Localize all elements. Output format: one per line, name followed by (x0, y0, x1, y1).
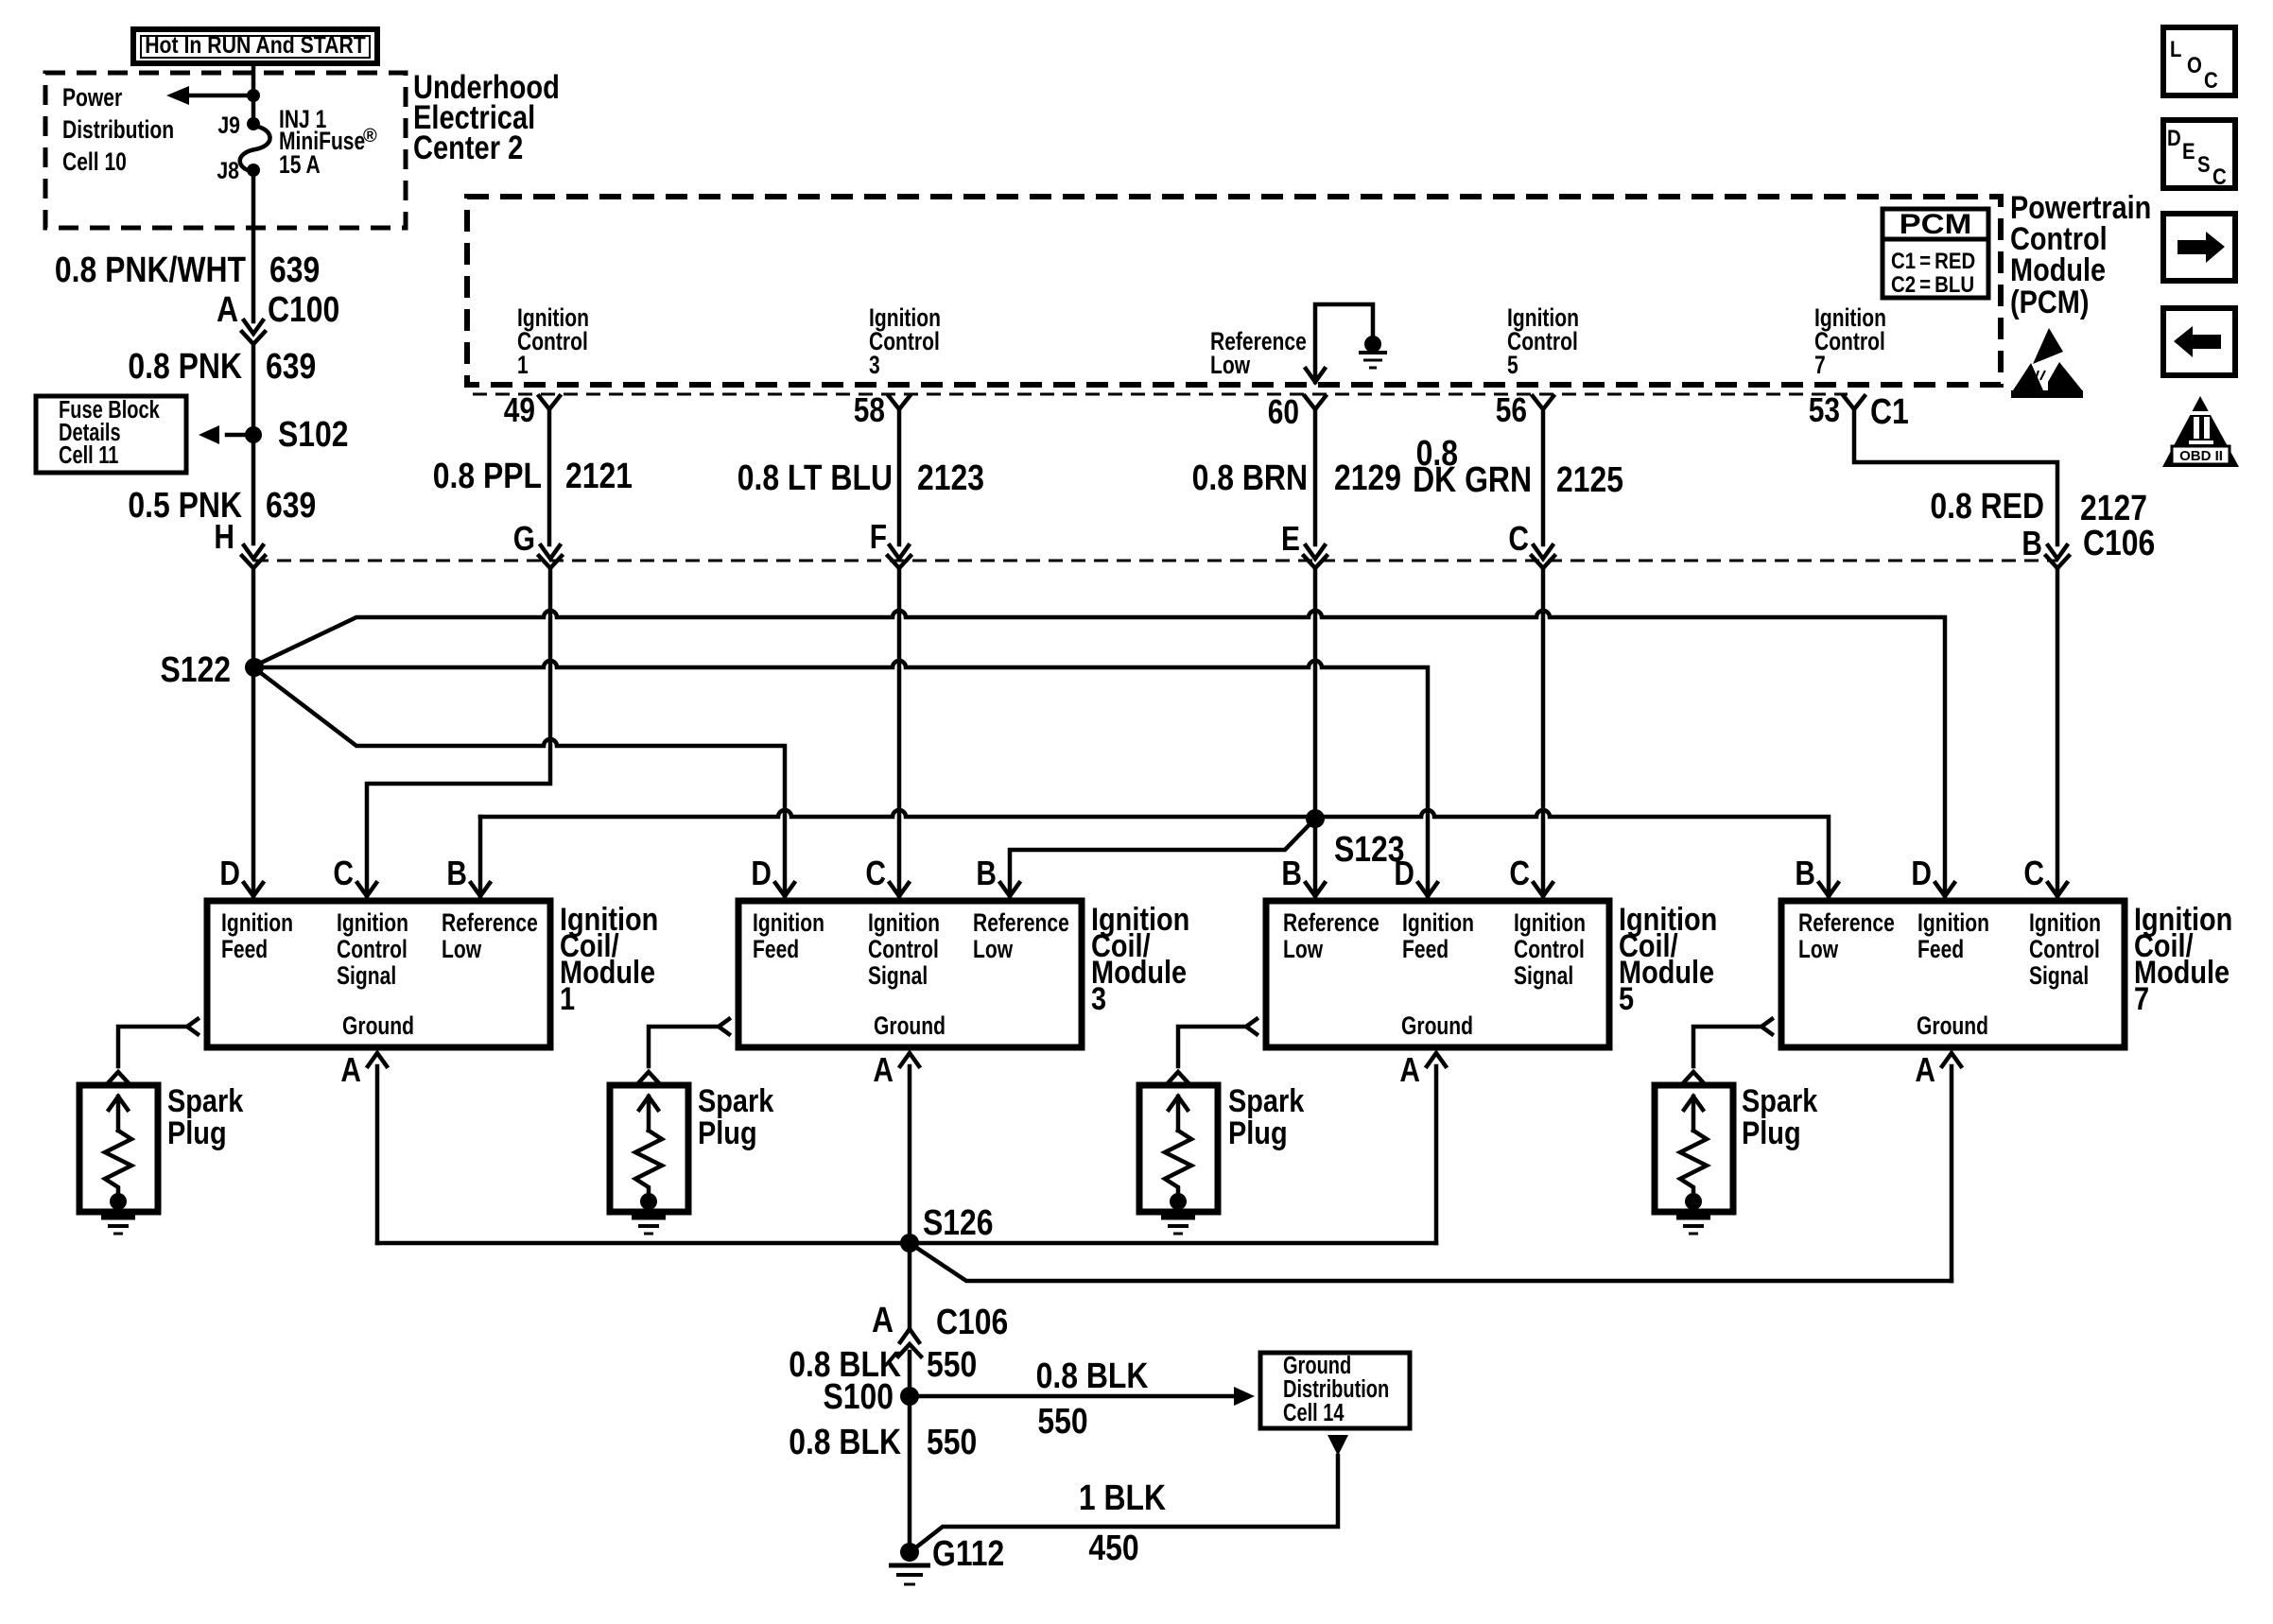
svg-text:E: E (1281, 520, 1300, 558)
spark plug 4 (1655, 1085, 1733, 1212)
PCM pin 58 connector fork (889, 396, 910, 409)
svg-text:Center 2: Center 2 (413, 129, 523, 165)
connector C106 pin G (539, 545, 562, 568)
svg-text:Control: Control (1514, 936, 1585, 964)
svg-text:OBD II: OBD II (2179, 448, 2223, 464)
label Underhood Electrical Center 2 (413, 68, 560, 165)
svg-text:(PCM): (PCM) (2010, 284, 2089, 320)
wire ignition control G to coil 1 pin C (367, 571, 550, 896)
svg-text:D: D (2167, 125, 2181, 150)
connector C106 pin C (1532, 545, 1554, 568)
label 0.8 BLK 550 (horizontal) (1036, 1356, 1149, 1441)
wire S122 branch to coil 3 pin D (bottom fan) (257, 670, 785, 896)
svg-text:Spark: Spark (698, 1082, 774, 1119)
spark plug 3 ground (1161, 1218, 1195, 1234)
PCM connector legend box PCM C1=RED C2=BLU (1883, 208, 1988, 298)
icon ESD sensitive device (2011, 328, 2083, 398)
arrow to Power Distribution Cell 10 (166, 86, 253, 105)
wire S122 branch to coil 5 pin D (middle) (254, 661, 1428, 896)
svg-text:Plug: Plug (1742, 1114, 1801, 1151)
spark plug 1 ground (101, 1218, 135, 1234)
svg-text:Reference: Reference (1283, 909, 1379, 938)
arrowhead into coil 5 pin B (1306, 883, 1325, 896)
svg-text:C: C (2204, 67, 2218, 93)
coil 7 pin A wire (1942, 1053, 1961, 1281)
svg-text:L: L (2170, 36, 2181, 61)
svg-text:O: O (2187, 52, 2202, 78)
svg-text:0.8 PPL: 0.8 PPL (433, 456, 542, 495)
wire 0.8 LT BLU 2123 (pin 58 to C106 F) (897, 409, 902, 544)
svg-text:C: C (333, 855, 354, 892)
connector C100 pin A (217, 289, 339, 344)
svg-text:Hot In RUN And START: Hot In RUN And START (145, 31, 366, 58)
svg-text:1: 1 (517, 352, 529, 380)
label Ignition Coil/Module 5 (1619, 901, 1717, 1017)
label box "Hot In RUN And START" (133, 29, 377, 63)
svg-text:Feed: Feed (221, 936, 268, 964)
svg-text:A: A (1915, 1051, 1935, 1089)
PCM connector C1 line (473, 393, 1848, 396)
wire 1 BLK 450 from Ground Distribution to G112 (912, 1435, 1348, 1550)
svg-text:0.8 RED: 0.8 RED (1930, 486, 2044, 526)
arrowhead into coil 7 pin C (2048, 883, 2067, 896)
svg-text:550: 550 (927, 1344, 977, 1384)
svg-text:2127: 2127 (2080, 488, 2147, 527)
spark plug 1 wire to coil (107, 1019, 198, 1084)
connector C106 pin H (242, 545, 265, 568)
svg-text:Reference: Reference (1798, 909, 1895, 938)
svg-text:Signal: Signal (868, 962, 928, 991)
arrowhead into coil 3 pin C (890, 883, 909, 896)
ignition coil/module 7 box (1781, 901, 2125, 1047)
svg-text:Signal: Signal (337, 962, 396, 991)
svg-text:D: D (219, 855, 240, 892)
svg-text:B: B (1795, 855, 1815, 892)
svg-text:C2 = BLU: C2 = BLU (1891, 271, 1974, 297)
label Ignition Coil/Module 1 (560, 901, 658, 1017)
svg-text:A: A (340, 1051, 361, 1089)
svg-text:B: B (976, 855, 997, 892)
label Ignition Control 7 (PCM pin 53) (1814, 304, 1886, 380)
label A C106 (872, 1300, 1008, 1341)
svg-text:S: S (2197, 151, 2211, 177)
label Spark Plug 2 (698, 1082, 774, 1151)
svg-text:Control: Control (337, 936, 408, 964)
Underhood Electrical Center 2 dashed box (Power Distribution) (45, 73, 406, 228)
svg-text:550: 550 (927, 1422, 977, 1461)
svg-text:2129: 2129 (1334, 458, 1401, 497)
svg-text:15 A: 15 A (279, 151, 321, 180)
label Ignition Control 1 (PCM pin 49) (517, 304, 589, 380)
svg-text:53: 53 (1809, 391, 1840, 429)
svg-text:Plug: Plug (167, 1114, 227, 1151)
label Spark Plug 3 (1228, 1082, 1305, 1151)
svg-text:D: D (1394, 855, 1414, 892)
label Reference Low (PCM pin 60) (1210, 328, 1307, 380)
svg-text:2125: 2125 (1556, 459, 1623, 499)
spark plug 2 ground (632, 1218, 666, 1234)
svg-text:639: 639 (266, 346, 316, 386)
ignition coil/module 1 box (207, 901, 550, 1047)
spark plug 1 (79, 1085, 158, 1212)
svg-text:Low: Low (442, 936, 481, 964)
ignition coil/module 5 box (1266, 901, 1609, 1047)
PCM pin 53 connector fork (1844, 396, 1865, 409)
wire 0.8 DK GRN 2125 (pin 56 to C106 C) (1541, 409, 1546, 544)
label Spark Plug 1 (167, 1082, 244, 1151)
wire ignition feed H to S122 to coil 1 pin D (252, 571, 256, 896)
svg-text:Ground: Ground (342, 1012, 414, 1041)
svg-text:0.8 PNK: 0.8 PNK (128, 346, 242, 386)
svg-text:5: 5 (1507, 352, 1518, 380)
svg-text:Power: Power (62, 84, 123, 112)
svg-text:Module: Module (2010, 251, 2106, 288)
wire 0.8 PPL 2121 (pin 49 to C106 G) (547, 409, 552, 544)
label Spark Plug 4 (1742, 1082, 1818, 1151)
svg-text:Control: Control (868, 936, 939, 964)
label Powertrain Control Module (PCM) (2010, 189, 2151, 320)
svg-text:C: C (1508, 520, 1529, 558)
svg-text:639: 639 (266, 485, 316, 525)
label Ignition Coil/Module 3 (1091, 901, 1189, 1017)
fuse INJ 1 MiniFuse 15 A (J9-J8) (240, 117, 270, 177)
svg-text:0.8 BLK: 0.8 BLK (1036, 1356, 1149, 1395)
label 0.8 DK GRN 2125 (1413, 433, 1623, 499)
label Ignition Coil/Module 7 (2134, 901, 2232, 1017)
svg-text:5: 5 (1619, 980, 1634, 1017)
arrowhead into coil 1 pin B (471, 883, 490, 896)
svg-text:Spark: Spark (167, 1082, 244, 1119)
wire 0.8 PNK/WHT 639 from fuse J8 to C100 (252, 177, 256, 321)
arrowhead into coil 5 pin D (1418, 883, 1437, 896)
splice S102 with arrow to Fuse Block Details (199, 425, 262, 444)
svg-text:0.8 BLK: 0.8 BLK (789, 1422, 901, 1461)
coil 1 pin A wire (368, 1053, 387, 1243)
label 0.8 PNK 639 (128, 346, 316, 386)
svg-text:Low: Low (1283, 936, 1323, 964)
label 0.8 BLK 550 (789, 1344, 977, 1384)
icon OBD II (2162, 396, 2239, 467)
svg-text:0.8 BRN: 0.8 BRN (1192, 458, 1308, 497)
label 0.5 PNK 639 (128, 485, 316, 525)
coil 3 pin A wire (900, 1053, 919, 1328)
icon LOC (2163, 27, 2235, 95)
svg-text:Distribution: Distribution (62, 116, 174, 145)
junction dot at power distribution tap (247, 89, 260, 102)
svg-text:Ignition: Ignition (1917, 909, 1989, 938)
wire ignition control B to coil 7 pin C (2056, 571, 2060, 896)
connector C106 pin F (888, 545, 911, 568)
svg-text:C106: C106 (2083, 523, 2155, 562)
svg-text:Signal: Signal (1514, 962, 1573, 991)
svg-text:0.8 LT BLU: 0.8 LT BLU (737, 458, 893, 497)
svg-text:Ground: Ground (1401, 1012, 1473, 1041)
label 0.8 PNK/WHT 639 (55, 250, 320, 289)
svg-text:Feed: Feed (1917, 936, 1964, 964)
svg-text:Feed: Feed (753, 936, 799, 964)
svg-text:B: B (1281, 855, 1302, 892)
svg-text:J9: J9 (217, 112, 240, 138)
svg-text:7: 7 (2134, 980, 2149, 1017)
svg-text:49: 49 (504, 391, 535, 429)
arrowhead into coil 1 pin C (357, 883, 376, 896)
svg-text:1 BLK: 1 BLK (1079, 1477, 1166, 1517)
svg-text:Ignition: Ignition (1402, 909, 1474, 938)
svg-text:A: A (872, 1300, 894, 1339)
arrowhead into coil 3 pin B (1000, 883, 1019, 896)
PCM pin 49 connector fork (539, 396, 560, 409)
label INJ 1 MiniFuse 15 A (279, 106, 377, 180)
svg-text:C: C (2023, 855, 2044, 892)
svg-text:Ignition: Ignition (2029, 909, 2101, 938)
arrowhead into coil 1 pin D (244, 883, 263, 896)
ground bus coil 1 A to coil 5 A through S126 (377, 1241, 1436, 1246)
svg-text:3: 3 (1091, 980, 1106, 1017)
ground bus branch S126 to coil 7 A (912, 1245, 1952, 1281)
wire 0.5 PNK 639 from S102 to C106 pin H (252, 435, 256, 544)
connector C106 line (254, 560, 2057, 562)
wire from Hot In RUN to J9 (252, 63, 256, 124)
splice S123 (1306, 809, 1325, 828)
svg-text:S102: S102 (278, 414, 349, 454)
svg-text:Cell 11: Cell 11 (59, 441, 118, 468)
svg-text:Signal: Signal (2029, 962, 2089, 991)
spark plug 2 wire to coil (637, 1019, 729, 1084)
svg-text:S100: S100 (823, 1376, 894, 1416)
svg-text:®: ® (363, 126, 377, 147)
svg-text:H: H (214, 518, 234, 556)
svg-text:C100: C100 (268, 289, 339, 329)
svg-text:E: E (2182, 138, 2195, 164)
svg-text:A: A (217, 289, 238, 329)
svg-text:B: B (446, 855, 467, 892)
svg-text:Reference: Reference (973, 909, 1069, 938)
icon arrow right (2163, 214, 2235, 281)
wire 0.8 BRN 2129 (pin 60 to C106 E) (1313, 409, 1318, 544)
wire 0.8 BLK 550 C106 to S100 (908, 1352, 912, 1396)
svg-text:1: 1 (560, 980, 575, 1017)
svg-text:G112: G112 (932, 1533, 1004, 1573)
wire S122 branch to coil 7 pin D (top fan) (257, 611, 1945, 896)
icon DESC (2163, 120, 2235, 189)
svg-text:0.8 PNK/WHT: 0.8 PNK/WHT (55, 250, 247, 289)
svg-text:58: 58 (854, 391, 885, 429)
connector C106 pin B (2046, 545, 2069, 568)
spark plug 3 wire to coil (1167, 1019, 1257, 1084)
wire 0.8 RED 2127 (pin 53 to C106 B) (1854, 409, 2057, 544)
wire ignition control F to coil 3 pin C (897, 571, 902, 896)
label 0.8 BLK 550 (lower) (789, 1422, 977, 1461)
svg-text:450: 450 (1088, 1528, 1138, 1567)
reference box Fuse Block Details Cell 11 (36, 395, 186, 473)
spark plug 2 (610, 1085, 688, 1212)
label 0.8 LT BLU 2123 (737, 458, 984, 497)
svg-text:Cell 10: Cell 10 (62, 148, 127, 177)
svg-text:C: C (1509, 855, 1530, 892)
svg-text:G: G (513, 520, 535, 558)
svg-text:S122: S122 (160, 649, 231, 689)
svg-text:Ignition: Ignition (753, 909, 824, 938)
svg-text:Ignition: Ignition (337, 909, 408, 938)
ground G112 (889, 1543, 930, 1584)
svg-text:Ignition: Ignition (868, 909, 940, 938)
svg-text:60: 60 (1268, 393, 1299, 431)
Powertrain Control Module (PCM) dashed box (467, 197, 2001, 385)
svg-text:Ground: Ground (874, 1012, 946, 1041)
svg-text:DK GRN: DK GRN (1413, 459, 1532, 499)
wire ignition control C to coil 5 pin C (1541, 571, 1546, 896)
label Ignition Control 5 (PCM pin 56) (1507, 304, 1579, 380)
svg-text:Plug: Plug (1228, 1114, 1288, 1151)
PCM pin 60 connector fork (1305, 396, 1326, 409)
arrowhead into coil 3 pin D (775, 883, 794, 896)
svg-text:A: A (873, 1051, 894, 1089)
spark plug 4 wire to coil (1682, 1019, 1772, 1084)
svg-text:S126: S126 (923, 1202, 994, 1242)
svg-text:Low: Low (973, 936, 1013, 964)
svg-text:B: B (2021, 525, 2042, 562)
svg-text:7: 7 (1814, 352, 1826, 380)
svg-text:Ground: Ground (1917, 1012, 1988, 1041)
arrowhead into coil 7 pin B (1819, 883, 1838, 896)
svg-text:Reference: Reference (442, 909, 538, 938)
svg-text:2121: 2121 (565, 456, 633, 495)
svg-text:J8: J8 (217, 157, 239, 183)
splice S122 (245, 658, 264, 677)
svg-text:Low: Low (1798, 936, 1838, 964)
svg-text:2123: 2123 (917, 458, 984, 497)
connector C106 pin E (1304, 545, 1327, 568)
label 0.8 RED 2127 (1930, 486, 2147, 527)
reference box Ground Distribution Cell 14 (1260, 1351, 1410, 1428)
connector C106 pin A (ground) (898, 1329, 921, 1356)
svg-text:Ignition: Ignition (1514, 909, 1586, 938)
PCM internal ground for Reference Low (1306, 304, 1387, 382)
svg-text:550: 550 (1037, 1401, 1087, 1441)
spark plug 4 ground (1676, 1218, 1710, 1234)
svg-text:C1 = RED: C1 = RED (1891, 248, 1975, 273)
svg-text:C: C (2212, 164, 2227, 189)
svg-text:PCM: PCM (1900, 208, 1972, 239)
arrowhead into coil 7 pin D (1935, 883, 1954, 896)
label Power Distribution Cell 10 (62, 84, 174, 177)
svg-text:Feed: Feed (1402, 936, 1449, 964)
wire 0.8 PNK 639 from C100 to S102 (252, 345, 256, 435)
svg-text:D: D (1911, 855, 1932, 892)
coil 5 pin A wire (1427, 1053, 1446, 1243)
svg-text:56: 56 (1496, 391, 1527, 429)
PCM pin 56 connector fork (1533, 396, 1553, 409)
label 0.8 BRN 2129 (1192, 458, 1401, 497)
wire 0.8 BLK 550 S100 to Ground Distribution Cell 14 (919, 1387, 1255, 1406)
svg-text:Low: Low (1210, 352, 1250, 380)
label 0.8 PPL 2121 (433, 456, 633, 495)
wire reference low S123 to coil 1 pin B (480, 810, 1315, 817)
ignition coil/module 3 box (738, 901, 1082, 1047)
icon arrow left (2163, 308, 2235, 375)
svg-text:Plug: Plug (698, 1114, 757, 1151)
svg-text:Ignition: Ignition (221, 909, 293, 938)
wire reference low S123 to coil 3 pin B (1010, 821, 1312, 896)
svg-text:Cell 14: Cell 14 (1283, 1398, 1345, 1425)
label Ignition Control 3 (PCM pin 58) (869, 304, 941, 380)
splice S126 (900, 1234, 919, 1253)
wire reference low E to S123 to coil 5 pin B (1313, 571, 1318, 896)
wire reference low S123 to coil 7 pin B (1315, 810, 1829, 896)
svg-text:D: D (751, 855, 772, 892)
svg-text:F: F (870, 518, 887, 556)
svg-text:Control: Control (2029, 936, 2100, 964)
spark plug 3 (1139, 1085, 1218, 1212)
svg-text:Spark: Spark (1742, 1082, 1818, 1119)
svg-text:A: A (1399, 1051, 1420, 1089)
wire 0.8 BLK 550 S100 to G112 (908, 1406, 912, 1552)
splice S100 (900, 1387, 919, 1406)
svg-text:3: 3 (869, 352, 880, 380)
svg-text:C1: C1 (1870, 391, 1909, 431)
label 1 BLK 450 (1079, 1477, 1166, 1567)
arrowhead into coil 5 pin C (1534, 883, 1553, 896)
svg-text:C106: C106 (936, 1302, 1008, 1341)
svg-text:639: 639 (269, 250, 320, 289)
svg-text:C: C (865, 855, 886, 892)
svg-text:Spark: Spark (1228, 1082, 1305, 1119)
